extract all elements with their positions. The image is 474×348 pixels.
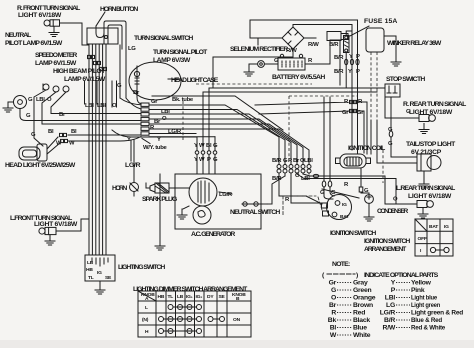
svg-text:Blue & Red: Blue & Red — [411, 317, 442, 324]
svg-text:BAT: BAT — [340, 214, 349, 220]
svg-text:LG/R: LG/R — [168, 129, 182, 135]
svg-text:STOP SWICTH: STOP SWICTH — [386, 76, 425, 83]
svg-text:DY: DY — [207, 294, 214, 300]
svg-text:Gray: Gray — [353, 280, 368, 287]
svg-text:IG₁: IG₁ — [186, 294, 193, 300]
svg-text:HB: HB — [158, 294, 165, 300]
svg-text:PILOT LAMP 6V/1.5W: PILOT LAMP 6V/1.5W — [5, 40, 63, 47]
svg-text:LIGHT 6V/18W: LIGHT 6V/18W — [408, 193, 452, 200]
svg-text:Light green: Light green — [411, 302, 440, 309]
svg-text:TURN SIGNAL PILOT: TURN SIGNAL PILOT — [153, 49, 208, 56]
svg-text:LIGHTING SWITCH: LIGHTING SWITCH — [118, 264, 165, 271]
svg-text:B/R: B/R — [384, 317, 395, 324]
svg-text:NEUTRAL SWITCH: NEUTRAL SWITCH — [230, 209, 280, 216]
svg-text:LG: LG — [386, 302, 395, 309]
svg-text:SPEEDO METER: SPEEDO METER — [35, 52, 77, 59]
svg-text:Y: Y — [348, 69, 352, 75]
svg-text:LIGHT 6V/18W: LIGHT 6V/18W — [18, 12, 62, 19]
svg-text:R. REAR TURN SIGNAL: R. REAR TURN SIGNAL — [403, 101, 466, 108]
svg-text:NEUTRAL: NEUTRAL — [5, 32, 31, 39]
svg-text:HB: HB — [86, 267, 93, 273]
svg-text:Black: Black — [353, 317, 370, 324]
svg-text:Red & White: Red & White — [411, 325, 445, 332]
svg-text:G: G — [331, 287, 336, 294]
svg-text:HORN BUTTON: HORN BUTTON — [100, 6, 138, 13]
svg-text:SE: SE — [105, 275, 112, 281]
svg-text:Orange: Orange — [353, 295, 376, 302]
svg-text:IG: IG — [444, 224, 449, 230]
svg-text:Bl: Bl — [71, 129, 77, 135]
svg-text:Y: Y — [391, 280, 396, 287]
svg-text:Y: Y — [157, 137, 161, 143]
svg-text:LG: LG — [128, 46, 136, 52]
svg-text:BAT: BAT — [429, 224, 438, 230]
svg-text:Light blue: Light blue — [411, 295, 437, 302]
svg-text:R: R — [331, 310, 336, 317]
svg-text:Pink: Pink — [411, 287, 425, 294]
svg-text:LG/R: LG/R — [380, 310, 396, 317]
svg-text:Blue: Blue — [353, 325, 367, 332]
svg-text:HIGH BEAM PILOT: HIGH BEAM PILOT — [53, 68, 106, 75]
svg-text:G: G — [28, 97, 33, 103]
svg-text:TAIL/STOP LIGHT: TAIL/STOP LIGHT — [406, 141, 456, 148]
svg-text:LBl: LBl — [385, 295, 396, 302]
svg-text:LIGHTING DIMMER SWITCH ARRA: LIGHTING DIMMER SWITCH ARRANGEMENT — [133, 286, 248, 293]
svg-text:HEAD LIGHT CASE: HEAD LIGHT CASE — [171, 77, 219, 84]
svg-text:L: L — [145, 305, 148, 311]
svg-text:Br: Br — [59, 112, 66, 118]
svg-text:LG/R: LG/R — [125, 162, 141, 169]
svg-text:INDICATE OPTIONAL PARTS: INDICATE OPTIONAL PARTS — [364, 272, 439, 279]
svg-text:ARRANGEMENT: ARRANGEMENT — [364, 246, 407, 253]
svg-text:Bk: Bk — [328, 317, 337, 324]
svg-text:LAMP 6V/3W: LAMP 6V/3W — [153, 57, 191, 64]
svg-text:(N): (N) — [142, 317, 149, 323]
svg-text:WINKER RELAY 36W: WINKER RELAY 36W — [387, 40, 442, 47]
svg-text:IG: IG — [97, 270, 102, 276]
svg-text:Br: Br — [133, 90, 140, 96]
svg-text:R/W: R/W — [286, 48, 297, 54]
svg-text:O: O — [331, 295, 336, 302]
svg-text:CONDENSER: CONDENSER — [377, 208, 408, 215]
svg-text:OFF: OFF — [418, 236, 427, 242]
svg-text:Red: Red — [353, 310, 365, 317]
svg-text:HORN: HORN — [112, 185, 127, 192]
svg-text:): ) — [356, 272, 358, 279]
svg-text:IGNITION SWITCH: IGNITION SWITCH — [364, 238, 410, 245]
svg-text:R/W: R/W — [383, 325, 396, 332]
svg-text:W: W — [199, 157, 205, 163]
svg-text:SELENIUM RECTIFIER: SELENIUM RECTIFIER — [230, 46, 288, 53]
svg-text:IG: IG — [342, 202, 347, 208]
svg-text:TURN SIGNAL SWITCH: TURN SIGNAL SWITCH — [134, 35, 193, 42]
svg-text:HEAD LIGHT 6V/25W/25W: HEAD LIGHT 6V/25W/25W — [5, 162, 76, 169]
svg-text:R/W: R/W — [308, 42, 319, 48]
svg-text:B/R: B/R — [334, 55, 344, 61]
svg-text:B/R: B/R — [334, 69, 344, 75]
svg-text:Green: Green — [353, 287, 371, 294]
svg-text:IGNITION SWITCH: IGNITION SWITCH — [330, 230, 376, 237]
svg-text:6V 21/3CP: 6V 21/3CP — [411, 149, 442, 156]
svg-text:NOTE:: NOTE: — [332, 261, 350, 268]
svg-text:W: W — [330, 332, 337, 339]
svg-text:BATTERY 6V/5.5AH: BATTERY 6V/5.5AH — [272, 74, 325, 81]
svg-text:Br: Br — [329, 302, 337, 309]
svg-text:FUSE 15A: FUSE 15A — [364, 18, 397, 25]
svg-text:P: P — [391, 287, 396, 294]
svg-text:Light green & Red: Light green & Red — [411, 310, 463, 317]
svg-text:B/R: B/R — [329, 42, 339, 48]
svg-text:LB: LB — [177, 294, 184, 300]
svg-text:Bl: Bl — [330, 325, 337, 332]
svg-text:ON: ON — [233, 317, 241, 323]
svg-text:Yellow: Yellow — [411, 280, 432, 287]
svg-text:White: White — [353, 332, 371, 339]
svg-text:Br: Br — [293, 158, 300, 164]
svg-text:IG₂: IG₂ — [196, 294, 203, 300]
svg-text:B/R: B/R — [272, 158, 282, 164]
svg-text:G: G — [26, 113, 31, 119]
svg-text:W: W — [199, 143, 205, 149]
svg-text:SE: SE — [219, 294, 226, 300]
svg-text:LBl: LBl — [97, 103, 106, 109]
svg-text:LB: LB — [87, 260, 94, 266]
svg-text:TL: TL — [88, 275, 94, 281]
svg-text:LAMP 6V/1.5W: LAMP 6V/1.5W — [35, 60, 77, 67]
svg-text:R. FRONT TURN SIGNAL: R. FRONT TURN SIGNAL — [17, 5, 80, 12]
svg-text:TL: TL — [168, 294, 174, 300]
svg-text:W/Y. tube: W/Y. tube — [143, 145, 168, 151]
svg-text:Bl: Bl — [48, 129, 54, 135]
svg-text:Brown: Brown — [353, 302, 373, 309]
svg-text:G: G — [406, 109, 411, 115]
svg-text:Gr: Gr — [329, 280, 337, 287]
svg-text:A.C. GENERATOR: A.C. GENERATOR — [191, 231, 235, 238]
